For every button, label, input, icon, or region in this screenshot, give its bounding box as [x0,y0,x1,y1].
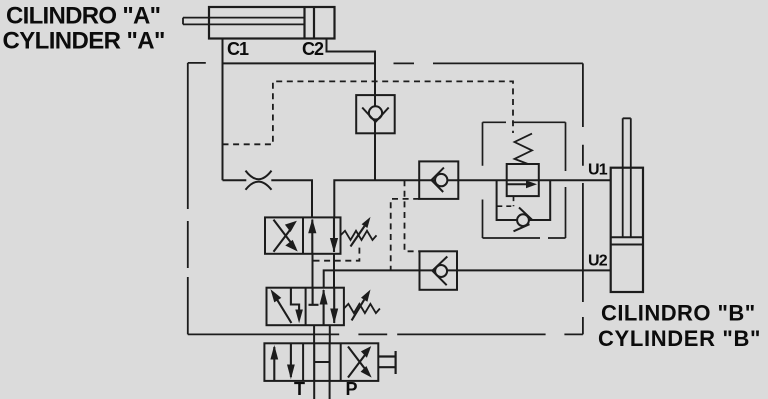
wire C2 to check valve [327,39,376,181]
flow restrictor [246,171,272,190]
svg-text:P: P [346,379,358,399]
directional valve V3 [264,343,378,381]
cylinder A [183,7,335,39]
pressure reducing valve RV1 [507,134,539,197]
wire C1 to restrictor and valve V1 port A [223,180,313,217]
pilot line C1 to reducing valve spring [223,81,514,144]
directional valve V2 [267,288,344,326]
svg-text:T: T [294,379,305,399]
svg-text:U1: U1 [588,162,608,179]
bypass check valve CV4 [497,180,551,231]
pilot line CV3 from U1 line [405,180,420,251]
spring adjustable V2 [344,290,380,321]
check valve CV2 (U1 line, pilot operated) [419,161,458,199]
svg-text:CYLINDER "B": CYLINDER "B" [598,326,761,351]
check valve CV3 (U2 line, pilot operated) [420,251,458,289]
wire V3 to tank and pump [314,381,329,399]
wire V1 to V2 [313,254,335,288]
svg-text:CILINDRO "B": CILINDRO "B" [601,301,756,326]
wire C1 vertical [222,39,224,181]
svg-text:CYLINDER "A": CYLINDER "A" [3,27,165,54]
actuator pin V3 [378,351,395,374]
enclosure boundary chain line [188,63,583,335]
wire valve V1 port B to U1 line [334,180,610,217]
pilot line V1 spring [314,244,360,260]
cylinder B [611,118,643,292]
chain line box around reducing valve [483,122,566,238]
directional valve V1 [265,217,341,253]
check valve CV1 [356,95,395,133]
wire U2 line [324,270,611,287]
svg-text:C1: C1 [227,39,249,59]
pilot line RV1 internal [497,196,513,206]
spring adjustable V1 [341,217,377,247]
svg-text:U2: U2 [588,253,608,270]
svg-text:C2: C2 [302,39,324,59]
wire V2 to V3 [314,325,330,343]
wire C1-C2 connector [223,62,376,64]
pilot line CV2 from U2 line [391,199,420,271]
svg-text:CILINDRO "A": CILINDRO "A" [6,3,160,30]
